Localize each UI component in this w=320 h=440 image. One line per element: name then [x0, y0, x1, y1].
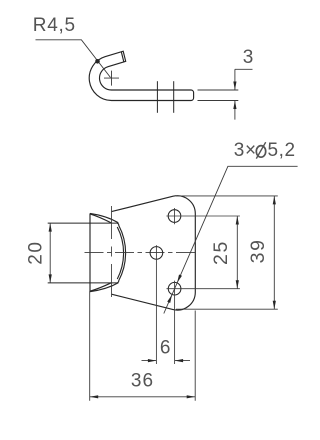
curl bottom notch outer — [90, 283, 118, 292]
hook tip end-cap second line — [121, 52, 124, 62]
dimension 6 line — [142, 360, 191, 362]
bend tangent line (dash-dot) — [111, 206, 113, 300]
plate outline — [112, 196, 196, 310]
dimension 20 line — [49, 223, 51, 283]
curl left edge — [89, 213, 91, 291]
svg-text:25: 25 — [210, 240, 232, 265]
svg-text:6: 6 — [160, 338, 171, 359]
svg-text:36: 36 — [131, 371, 154, 392]
leader 3x5,2 line — [164, 166, 298, 313]
svg-text:R4,5: R4,5 — [33, 15, 76, 36]
hole H2 vertical line / 6-dim extension — [155, 245, 157, 364]
curl top notch inner — [90, 214, 112, 223]
tip end bulge outer — [117, 223, 126, 283]
bar bottom edge + 20 extension — [48, 282, 117, 284]
hole H3 (bottom) — [168, 282, 181, 295]
curl bottom notch inner — [90, 283, 112, 292]
dimension 3 arrowheads — [233, 82, 236, 91]
hole H2 (middle) — [150, 247, 163, 260]
svg-text:20: 20 — [26, 240, 47, 264]
diameter symbol — [256, 146, 265, 158]
dimension 36 extension lines — [90, 291, 196, 401]
bar top edge + 20 extension — [48, 222, 117, 224]
horizontal centerline (dash-dot) — [85, 252, 199, 254]
dimension 39 extension lines — [176, 196, 278, 309]
svg-text:3: 3 — [243, 47, 254, 68]
dimension 39 line — [273, 196, 275, 309]
dimension 3 lines — [234, 69, 236, 119]
leader line R4,5 — [36, 40, 111, 78]
dimension 3 leader — [235, 68, 253, 70]
dimension 36 line — [90, 396, 196, 398]
break line 2 — [173, 81, 175, 113]
break line 1 — [156, 81, 158, 113]
svg-text:5,2: 5,2 — [268, 140, 296, 161]
tip end bulge inner — [117, 227, 123, 279]
hole H3 cross / extensions — [167, 281, 240, 364]
hole H1 cross — [166, 208, 240, 224]
leader dot — [95, 59, 100, 64]
hole H1 (top) — [168, 210, 181, 223]
hook strip outline (side view) — [89, 51, 193, 100]
dimension 25 — [236, 216, 238, 289]
leader 3x5,2 arrowheads — [177, 274, 182, 282]
dimension 3 extension lines — [198, 69, 253, 119]
radius center cross — [104, 71, 119, 86]
svg-text:39: 39 — [247, 238, 269, 263]
curl top notch outer — [90, 213, 118, 222]
svg-text:3×: 3× — [234, 140, 257, 161]
